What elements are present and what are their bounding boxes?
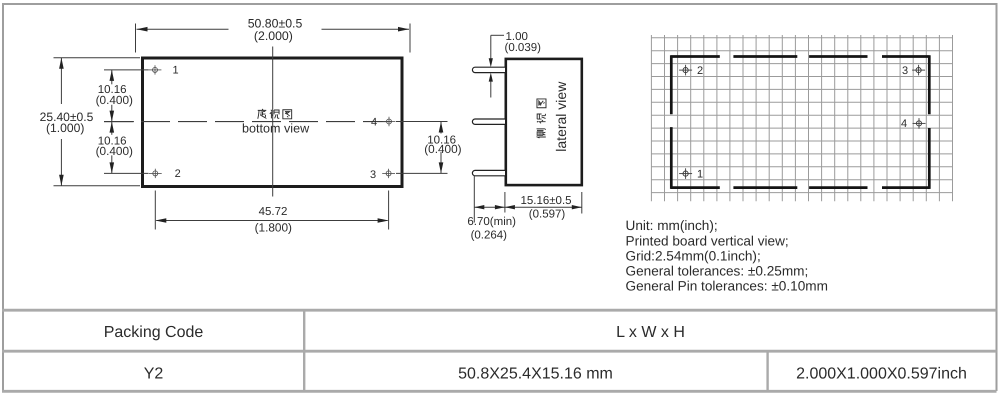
svg-text:(0.597): (0.597) (529, 208, 566, 220)
dimension 10.16 upper line (111, 70, 113, 84)
grid pin 4 (913, 118, 926, 129)
dimension 10.16 lower arrows (110, 122, 115, 133)
lateral pin bottom (472, 170, 505, 175)
dimension 25.40 arrows (59, 58, 64, 69)
view title chinese: bottom view (258, 109, 267, 119)
dimension 25.40 line (60, 58, 62, 104)
dimension 6.70 / 15.16 line (474, 206, 582, 208)
grid pin 1 (679, 168, 692, 179)
svg-text:Printed board vertical view;: Printed board vertical view; (626, 233, 789, 248)
svg-text:3: 3 (902, 65, 908, 77)
grid pin 2 (679, 65, 692, 76)
svg-text:Packing Code: Packing Code (104, 324, 204, 341)
dimension 45.72 arrows (155, 218, 166, 223)
svg-text:L x W x H: L x W x H (616, 324, 685, 341)
dimension 45.72 extension lines (154, 191, 156, 230)
dimension 45.72 line (156, 220, 387, 222)
lateral pin top (472, 67, 505, 72)
svg-text:General tolerances: ±0.25mm;: General tolerances: ±0.25mm; (626, 264, 809, 279)
grid pin 3 (912, 65, 925, 76)
svg-text:2: 2 (697, 65, 703, 77)
bottom view body outline (143, 58, 403, 187)
dimension 50.80 arrows (137, 27, 148, 32)
svg-text:4: 4 (371, 116, 377, 128)
dimension 50.80 extension lines (135, 24, 137, 53)
svg-text:1: 1 (697, 168, 703, 180)
pin 3 (bottom view) (382, 169, 395, 178)
svg-text:(0.264): (0.264) (471, 230, 508, 242)
dimension 1.00 arrows (489, 58, 493, 67)
dimension 6.70 arrows (474, 205, 484, 209)
pcb module dashed outline (671, 55, 930, 189)
svg-text:45.72: 45.72 (259, 206, 288, 218)
svg-text:(1.800): (1.800) (255, 221, 292, 235)
horizontal centerline (104, 121, 403, 123)
dimension 1.00 leader (491, 34, 504, 36)
svg-text:Grid:2.54mm(0.1inch);: Grid:2.54mm(0.1inch); (626, 248, 761, 263)
dimension 1.00 line (490, 35, 492, 59)
svg-text:4: 4 (901, 118, 907, 130)
pin2 row extension line (104, 172, 149, 174)
svg-text:(0.400): (0.400) (424, 142, 461, 156)
pin4 row extension line (396, 121, 448, 123)
lateral bottom extension lines (473, 176, 475, 223)
lateral pin middle (472, 119, 505, 124)
svg-text:50.8X25.4X15.16 mm: 50.8X25.4X15.16 mm (458, 365, 613, 382)
vertical centerline (272, 47, 274, 197)
svg-text:Y2: Y2 (144, 365, 164, 382)
svg-text:Unit: mm(inch);: Unit: mm(inch); (626, 218, 718, 233)
svg-text:15.16±0.5: 15.16±0.5 (520, 195, 571, 207)
svg-text:(0.400): (0.400) (96, 144, 133, 158)
svg-text:6.70(min): 6.70(min) (467, 216, 516, 228)
svg-text:(0.039): (0.039) (505, 42, 542, 54)
lateral view body outline (506, 59, 582, 185)
dimension 25.40 extension lines (54, 57, 141, 59)
svg-text:3: 3 (370, 169, 376, 181)
svg-text:(2.000): (2.000) (254, 29, 293, 43)
centerline left stub (104, 121, 134, 123)
svg-text:lateral view: lateral view (553, 81, 569, 152)
svg-text:bottom view: bottom view (242, 122, 310, 136)
pin1 row extension line (104, 69, 149, 71)
svg-text:(1.000): (1.000) (46, 121, 84, 135)
grid (printed board) (651, 35, 952, 201)
pin 1 (bottom view) (149, 65, 162, 74)
view title chinese: lateral view (537, 129, 546, 138)
dimension 10.16 right arrows (439, 122, 444, 133)
svg-text:(0.400): (0.400) (96, 93, 133, 107)
dimension 10.16 right line (440, 122, 442, 134)
dimension 10.16 lower line (111, 122, 113, 135)
dimension 50.80 line (137, 28, 229, 30)
pin3 row extension line (396, 172, 448, 174)
dimension 15.16 arrows (505, 205, 515, 209)
pin 4 (bottom view) (383, 117, 396, 126)
svg-text:2.000X1.000X0.597inch: 2.000X1.000X0.597inch (796, 365, 967, 382)
dimension 10.16 upper arrows (110, 70, 115, 81)
pin 2 (bottom view) (149, 169, 162, 178)
svg-text:2: 2 (175, 168, 181, 180)
table grid lines (2, 310, 997, 391)
svg-text:1: 1 (173, 65, 179, 77)
svg-text:General Pin tolerances: ±0.10m: General Pin tolerances: ±0.10mm (626, 279, 828, 294)
